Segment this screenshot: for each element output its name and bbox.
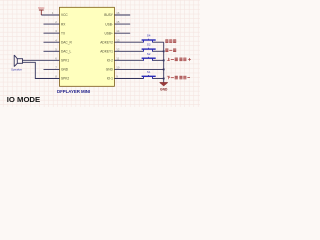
svg-text:S1: S1 (147, 70, 151, 74)
svg-text:ADKEY2: ADKEY2 (100, 41, 113, 45)
pin 11 IO-2 (107, 56, 120, 62)
wire net VCC to pin 1 (41, 14, 59, 16)
svg-text:BUSY: BUSY (104, 13, 114, 17)
label key S3 (165, 49, 176, 53)
wire pin 12 to S3 (114, 50, 143, 52)
label key S4 (165, 39, 176, 43)
svg-text:Speaker: Speaker (11, 67, 22, 71)
sheet background (0, 0, 200, 107)
svg-text:13: 13 (116, 38, 120, 42)
pin 3 TX (44, 29, 66, 35)
IC U1 DFPLAYER MINI body (60, 7, 115, 86)
pin 15 USB- (105, 20, 130, 26)
switch S4 (142, 34, 156, 43)
svg-text:DAC_L: DAC_L (61, 50, 72, 54)
svg-text:VCC: VCC (61, 13, 68, 17)
wire S1 to gnd bus (153, 77, 164, 79)
wire pin 11 to S2 (114, 59, 143, 61)
svg-text:SPK1: SPK1 (61, 59, 69, 63)
power symbol VCC (38, 6, 45, 15)
pin 8 SPK2 (55, 75, 69, 81)
pin 14 USB+ (104, 29, 130, 35)
label key S2 (167, 58, 191, 62)
wire pin 9 to S1 (114, 77, 143, 79)
svg-text:11: 11 (116, 56, 119, 60)
pin 4 DAC_R (44, 38, 73, 44)
label key S1 (167, 76, 190, 80)
pin 10 GND (106, 66, 120, 72)
svg-text:10: 10 (116, 66, 120, 70)
wire S3 to gnd bus (153, 50, 164, 52)
wire speaker+ to pin 6 SPK1 (23, 59, 60, 61)
wire speaker- to pin 8 SPK2 (23, 62, 60, 78)
pin 5 DAC_L (44, 47, 72, 53)
svg-text:USB+: USB+ (104, 31, 113, 35)
svg-text:ADKEY1: ADKEY1 (100, 50, 113, 54)
svg-text:14: 14 (116, 29, 120, 33)
wire pin 13 to S4 (114, 41, 143, 43)
wire S4 to gnd bus (153, 41, 164, 43)
svg-text:IO-1: IO-1 (107, 77, 113, 81)
pin 12 ADKEY1 (100, 47, 120, 53)
ground symbol GND (160, 83, 168, 92)
svg-text:IO-2: IO-2 (107, 59, 113, 63)
pin 6 SPK1 (55, 56, 69, 62)
svg-text:IO MODE: IO MODE (7, 95, 40, 104)
svg-text:GND: GND (106, 68, 114, 72)
pin 2 RX (44, 20, 67, 26)
svg-text:S3: S3 (147, 43, 151, 47)
switch S1 (142, 70, 156, 79)
svg-text:SPK2: SPK2 (61, 77, 69, 81)
wire S2 to gnd bus (153, 59, 164, 61)
speaker LS (11, 55, 23, 71)
junction S3/bus (163, 50, 165, 52)
svg-text:USB-: USB- (105, 22, 113, 26)
svg-text:DAC_R: DAC_R (61, 41, 73, 45)
pin 7 GND (44, 66, 69, 72)
svg-text:12: 12 (116, 47, 120, 51)
svg-text:S4: S4 (147, 34, 151, 38)
svg-text:15: 15 (116, 20, 120, 24)
wire pin 10 GND to bus (114, 68, 163, 70)
svg-text:S2: S2 (147, 52, 151, 56)
svg-text:GND: GND (61, 68, 69, 72)
svg-text:GND: GND (160, 88, 168, 92)
pin 16 BUSY (104, 11, 130, 17)
svg-text:VCC: VCC (38, 6, 45, 10)
pin 1 VCC (52, 11, 69, 17)
pin 13 ADKEY2 (100, 38, 120, 44)
svg-text:DFPLAYER MINI: DFPLAYER MINI (57, 89, 90, 94)
svg-text:16: 16 (116, 11, 120, 15)
pin 9 IO-1 (107, 75, 119, 81)
wire gnd bus vertical (163, 42, 165, 82)
junction S2/bus (163, 59, 165, 61)
switch S3 (142, 43, 156, 52)
junction S1/bus (163, 78, 165, 80)
switch S2 (142, 52, 156, 61)
junction GND/bus (163, 69, 165, 71)
